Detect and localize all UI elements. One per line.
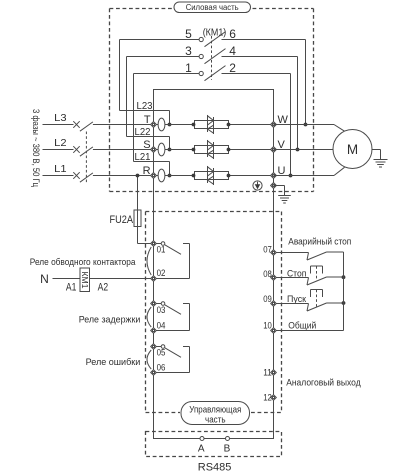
svg-text:RS485: RS485	[198, 462, 232, 474]
svg-text:03: 03	[157, 305, 166, 315]
current transformer on row R	[158, 169, 165, 182]
terminal 08	[263, 269, 276, 280]
svg-text:2: 2	[229, 61, 236, 75]
fault relay contact 05-06	[154, 345, 190, 373]
label "Управляющая часть" (control part)	[181, 402, 250, 425]
wire V to motor	[274, 149, 334, 151]
node module-left row 3	[192, 174, 196, 178]
junction node output row 2	[296, 148, 300, 152]
node module-right row 2	[227, 148, 231, 152]
wire from contact 2 down to output row	[290, 74, 292, 176]
wire W to motor	[274, 125, 345, 132]
junction node L21-row	[168, 174, 172, 178]
control section boundary (dashed box)	[146, 212, 282, 413]
svg-text:Общий: Общий	[288, 320, 316, 331]
svg-text:Аналоговый выход: Аналоговый выход	[286, 378, 361, 389]
svg-text:06: 06	[157, 363, 166, 373]
terminal 10	[263, 320, 276, 333]
svg-text:L22: L22	[135, 126, 151, 138]
terminal 05	[151, 344, 157, 350]
svg-text:09: 09	[263, 294, 272, 304]
terminal 04	[151, 328, 157, 334]
stop button contact	[274, 266, 344, 285]
node module-right row 1	[227, 123, 231, 127]
junction node output row 1	[304, 123, 308, 127]
fuse FU2A	[110, 176, 142, 244]
svg-text:A1: A1	[66, 281, 77, 293]
terminal 07	[263, 244, 276, 255]
label "Силовая часть" (power part)	[174, 2, 251, 13]
node module-right row 3	[227, 174, 231, 178]
wire L23 from contact 5 to row	[120, 40, 170, 125]
bypass contactor relay contact 01-02	[154, 242, 190, 279]
svg-text:3 фазы ~ 380 В, 50 Гц: 3 фазы ~ 380 В, 50 Гц	[30, 109, 41, 187]
phase input L1 with disconnect switch	[43, 163, 154, 182]
phase input L3 with disconnect switch	[43, 112, 154, 131]
terminal PE	[271, 183, 277, 189]
wire coil KM1 to terminal 02	[90, 278, 152, 280]
junction node output row 3	[289, 174, 293, 178]
terminal 09	[263, 294, 276, 307]
wire common terminal 10 to button bus	[274, 252, 344, 331]
current transformer on row T	[158, 118, 165, 131]
node start-bus	[342, 301, 346, 305]
svg-text:A2: A2	[98, 281, 109, 293]
svg-text:Реле ошибки: Реле ошибки	[86, 357, 141, 368]
terminal 06	[151, 370, 157, 376]
thyristor module VS2 (anti-parallel SCR pair)	[195, 140, 229, 159]
svg-text:S: S	[143, 139, 150, 151]
svg-text:L23: L23	[137, 100, 153, 112]
junction node L23-row	[168, 123, 172, 127]
svg-text:B: B	[224, 444, 231, 455]
connector arc 01-02	[147, 247, 151, 275]
RS485 interface boundary (dashed box)	[146, 432, 282, 457]
svg-text:08: 08	[263, 269, 272, 279]
svg-text:6: 6	[229, 27, 236, 41]
terminal T	[144, 114, 157, 128]
terminal 12	[263, 392, 276, 402]
KM1 mechanical linkage (dashed)	[211, 36, 213, 80]
svg-text:10: 10	[263, 320, 272, 330]
motor ground	[372, 150, 388, 168]
node module-left row 1	[192, 123, 196, 127]
svg-text:Реле задержки: Реле задержки	[79, 315, 141, 326]
terminal U	[271, 165, 286, 179]
terminal 02	[151, 276, 157, 282]
terminal 01	[151, 241, 157, 247]
svg-text:4: 4	[229, 44, 236, 58]
phase input L2 with disconnect switch	[43, 137, 154, 156]
svg-text:12: 12	[263, 392, 272, 402]
svg-text:FU2A: FU2A	[110, 214, 134, 226]
wire row T-W	[154, 124, 274, 126]
svg-text:Реле обводного контактора: Реле обводного контактора	[30, 257, 136, 268]
contactor KM1 contact 3-4	[127, 44, 298, 64]
emergency stop button contact	[274, 252, 344, 260]
node module-left row 2	[192, 148, 196, 152]
svg-text:1: 1	[185, 61, 192, 75]
wire row S-V	[154, 149, 274, 151]
svg-text:Аварийный стоп: Аварийный стоп	[288, 237, 351, 248]
svg-text:5: 5	[185, 27, 192, 41]
disconnect switch mechanical linkage (dashed)	[85, 132, 87, 183]
svg-text:A: A	[198, 444, 205, 455]
svg-text:Силовая часть: Силовая часть	[186, 2, 239, 12]
thyristor module VS1 (anti-parallel SCR pair)	[195, 115, 229, 134]
grounding point symbol (circle with arrow)	[253, 181, 262, 190]
svg-text:N: N	[40, 272, 49, 286]
svg-text:3: 3	[185, 44, 192, 58]
svg-text:L21: L21	[135, 151, 151, 163]
svg-text:05: 05	[157, 348, 166, 358]
terminal 11	[263, 367, 276, 377]
svg-text:M: M	[347, 142, 358, 157]
svg-text:Управляющая: Управляющая	[189, 405, 241, 415]
soft starter device outline box	[154, 90, 274, 439]
wire row R-U	[154, 175, 274, 177]
svg-text:01: 01	[157, 245, 166, 255]
terminal V	[271, 139, 286, 153]
thyristor module VS3 (anti-parallel SCR pair)	[195, 166, 229, 185]
svg-text:часть: часть	[205, 415, 226, 425]
connector arc 05-06	[147, 350, 151, 369]
terminal A	[198, 437, 205, 455]
terminal R	[143, 165, 157, 179]
svg-text:04: 04	[157, 321, 166, 331]
svg-text:КМ1: КМ1	[80, 272, 90, 289]
svg-text:11: 11	[263, 367, 272, 377]
svg-text:07: 07	[263, 244, 272, 254]
wire fuse to terminal 01	[138, 243, 152, 245]
start button contact	[274, 290, 344, 312]
wire L22 from contact 3 to row	[127, 57, 170, 150]
node fuse tap on R row	[136, 174, 140, 178]
svg-text:L2: L2	[54, 137, 67, 149]
svg-text:02: 02	[157, 268, 166, 278]
terminal B	[224, 437, 231, 455]
wire N to coil KM1	[40, 272, 80, 286]
junction node L22-row	[168, 148, 172, 152]
delay relay contact 03-04	[154, 302, 190, 331]
connector arc 03-04	[147, 307, 151, 327]
svg-text:L1: L1	[54, 163, 67, 175]
node stop-bus	[342, 275, 346, 279]
svg-text:R: R	[143, 165, 151, 177]
terminal S	[143, 139, 156, 153]
wire U to motor	[274, 167, 345, 175]
power section boundary (dashed box)	[110, 9, 314, 192]
svg-text:(КМ1): (КМ1)	[203, 27, 227, 39]
motor M	[333, 130, 372, 169]
terminal W	[271, 114, 289, 128]
contactor KM1 contact 5-6	[120, 27, 306, 47]
terminal 03	[151, 301, 157, 307]
wire from contact 4 down to output row	[297, 57, 299, 150]
PE ground symbol	[274, 186, 291, 204]
wire from contact 6 down to output row	[305, 40, 307, 125]
contactor coil KM1	[66, 268, 108, 293]
svg-text:T: T	[144, 114, 151, 126]
contactor KM1 contact 1-2	[134, 61, 291, 81]
wire L21 from contact 1 to row	[134, 74, 170, 176]
current transformer on row S	[158, 143, 165, 156]
svg-text:L3: L3	[54, 112, 67, 124]
